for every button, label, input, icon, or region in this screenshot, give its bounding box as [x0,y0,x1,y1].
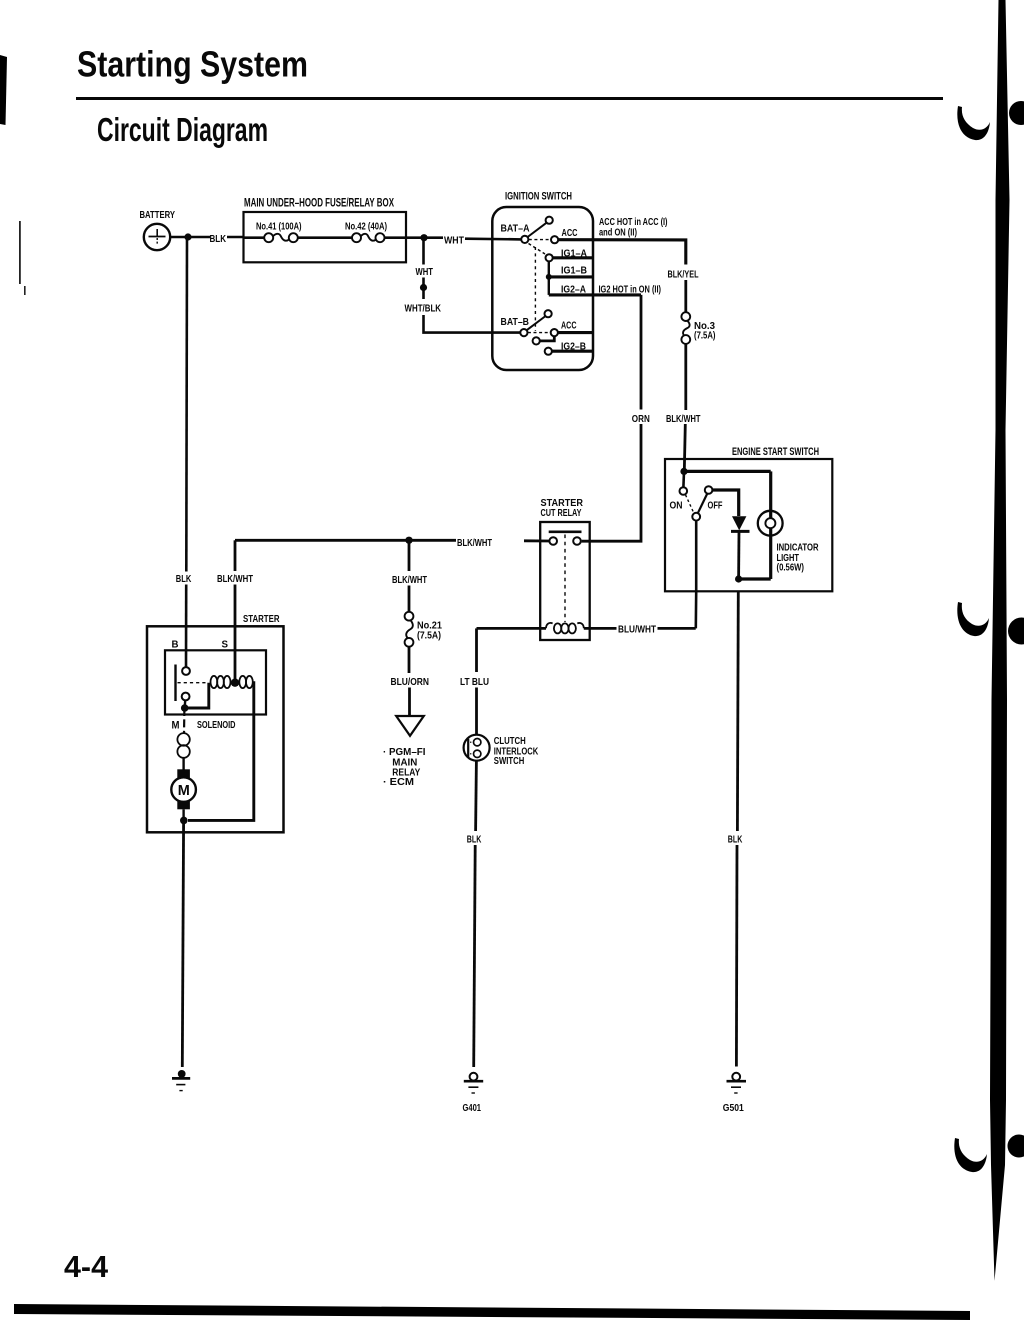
ground battery side [172,1070,190,1091]
wire IG2-A out to ORN corner [549,293,641,296]
svg-text:M: M [178,783,190,799]
wire fuse No.3 down [684,344,687,410]
wire relay coil left to clutch column [477,627,547,630]
engine start switch box [665,459,832,591]
relay contact left [549,537,557,545]
svg-text:G501: G501 [723,1102,744,1114]
wire junction to coil left [185,683,209,708]
fuse No.21 (7.5A) [405,612,414,647]
svg-text:No.41 (100A): No.41 (100A) [256,222,302,233]
wire lamp top feed [769,471,772,518]
ground G501 [727,1073,747,1093]
svg-text:Circuit Diagram: Circuit Diagram [97,111,268,148]
svg-text:B: B [172,638,179,650]
wire ACC out to BLK/YEL corner [558,240,686,265]
node battery junction [184,233,191,240]
label PGM-FI MAIN RELAY ECM [383,746,426,788]
wire IG1 vertical [548,261,550,295]
contact below BAT-B [533,337,540,344]
right edge hole circle 1 [1009,101,1024,125]
svg-text:BLU/ORN: BLU/ORN [391,676,430,688]
relay contact plate bar [549,530,582,533]
wire pivot down out of box [694,521,697,629]
svg-text:LT BLU: LT BLU [460,676,489,688]
node WHT/BLK splice [420,284,427,291]
battery BLK vertical wire lower to starter B [185,585,188,668]
wire BLK/WHT horizontal to starter cut relay [235,539,456,542]
svg-text:IG2 HOT in ON (II): IG2 HOT in ON (II) [599,283,662,295]
wire BLU/WHT to engine switch column [658,627,696,630]
wire junction to ON contact [682,471,685,487]
contact arm tip A [546,217,553,224]
wire BLK/WHT No.21 column upper [408,540,411,571]
svg-text:BLK/WHT: BLK/WHT [457,537,492,549]
svg-text:BLK: BLK [210,233,227,245]
fuse No.3 (7.5A) [681,312,690,344]
wire fuse No.21 down [408,647,411,673]
svg-text:BLK/WHT: BLK/WHT [392,574,427,586]
wire IG1-B stub [549,275,593,278]
right edge hole circle 3 [1008,1135,1024,1158]
wire OFF to diode [712,490,738,516]
solenoid hold-in coil [239,676,253,688]
svg-text:WHT/BLK: WHT/BLK [405,303,442,315]
wire M contact to junction [183,700,186,707]
wire BLU/ORN to arrow [408,688,411,716]
pen curl mark 1 [957,106,990,140]
svg-text:4-4: 4-4 [64,1249,109,1284]
wire WHT vertical lower [422,278,425,300]
svg-text:· ECM: · ECM [383,776,414,788]
svg-text:BAT–A: BAT–A [501,223,530,235]
node IG1-B junction [546,274,552,280]
svg-text:ACC: ACC [562,227,578,239]
solenoid contact B [182,667,190,675]
solenoid pull-in coil [211,676,231,688]
svg-text:BLK: BLK [728,833,743,845]
wire WHT to ignition BAT-A [465,237,522,240]
svg-text:BLU/WHT: BLU/WHT [618,624,656,636]
relay dashed plunger line [564,535,566,623]
dashed link BAT-B to ACC-B [528,332,550,334]
wire BLK down to G501 upper [736,591,740,831]
dashed mechanical link vertical [534,247,536,331]
contact ACC-B [551,329,558,336]
svg-text:BLK: BLK [176,573,192,585]
svg-text:BATTERY: BATTERY [140,209,176,221]
wire brush to bottom junction [182,809,184,820]
wire BLK/WHT into engine start switch [684,424,685,471]
node junction at BLK/WHT entry [680,468,687,475]
contact BAT-A [521,236,528,243]
scan artifact line left [19,221,21,284]
wire WHT vertical upper [422,238,425,265]
svg-text:BLK/YEL: BLK/YEL [668,268,699,280]
svg-text:STARTER: STARTER [243,613,280,625]
motor brush bottom [177,801,190,810]
svg-text:ACC: ACC [561,320,577,332]
battery [144,224,170,250]
pen curl mark 3 [954,1138,987,1172]
wire junction to indicator light branch [684,470,771,473]
contact arm tip B [545,310,552,317]
label INDICATOR LIGHT (0.56W) [777,541,819,573]
svg-text:ENGINE START SWITCH: ENGINE START SWITCH [732,446,819,458]
wire IG1-A stub [553,256,593,259]
svg-text:No.42 (40A): No.42 (40A) [345,222,387,233]
title rule [76,97,943,100]
wire ORN lower to relay [582,424,641,541]
label CLUTCH INTERLOCK SWITCH [494,735,539,767]
wire coil to brush [182,758,184,770]
dashed link BAT-A to ACC [529,239,551,241]
left edge black tab [0,55,7,125]
svg-text:S: S [222,638,229,650]
solenoid contact M [182,693,190,701]
wire relay coil right to BLU/WHT [584,627,617,630]
svg-text:G401: G401 [463,1102,482,1114]
wire coil return right side down [188,683,254,821]
fuse No.41 (100A) [264,233,298,242]
pen curl mark 2 [957,602,989,636]
svg-text:and ON (II): and ON (II) [599,226,637,238]
switch pivot contact [692,513,700,521]
contact IG2-B [545,348,552,355]
svg-text:Starting System: Starting System [77,44,308,85]
motor armature coil [177,733,189,758]
diode cathode bar [731,530,750,533]
ignition switch box [492,207,593,370]
svg-text:BLK: BLK [467,833,482,845]
relay coil [546,623,584,633]
starter box [147,626,284,832]
wire diode to bottom junction [737,531,740,579]
svg-text:IG1–B: IG1–B [561,265,587,277]
svg-text:(0.56W): (0.56W) [777,561,805,573]
wire ORN upper [640,295,643,410]
node motor bottom junction [180,817,188,825]
svg-text:OFF: OFF [708,499,723,511]
switch arm BAT-B [527,316,546,330]
contact BAT-B [520,329,527,336]
starter cut relay box [540,522,590,640]
wire inside fuse box left [244,236,265,239]
wire clutch column top from relay coil [475,628,478,672]
solenoid dashed actuator line [178,682,209,684]
relay contact right [573,537,581,545]
switch arm BAT-A [528,223,547,237]
wire BLK/WHT S-column lower [234,585,237,683]
svg-text:SOLENOID: SOLENOID [197,719,236,731]
svg-text:CUT RELAY: CUT RELAY [541,507,582,519]
wire clutch switch down [474,761,478,831]
main under-hood fuse/relay box [244,212,407,262]
wire lamp bottom [769,528,772,579]
wire between fuses [298,236,352,239]
wire fuse box to WHT junction [385,236,444,239]
contact ON [680,487,688,495]
motor M1 [171,777,196,802]
svg-text:BLK/WHT: BLK/WHT [666,413,701,425]
svg-text:(7.5A): (7.5A) [417,631,441,642]
svg-text:BLK/WHT: BLK/WHT [217,573,253,585]
node BLK/WHT junction at No.21 [405,537,412,544]
contact IG1-A [546,254,553,261]
arrow to PGM-FI main relay / ECM [396,716,424,736]
wire BLK/WHT into relay left contact [524,539,549,542]
switch arm to OFF [698,494,708,514]
svg-text:IGNITION SWITCH: IGNITION SWITCH [505,191,572,203]
wire junction to lamp bottom [739,577,771,580]
diode D1 [732,516,746,530]
wire BLK down to G501 lower [735,845,738,1067]
motor brush top [177,769,190,778]
ground G401 [464,1073,483,1093]
svg-text:ORN: ORN [632,413,650,425]
node S junction on coil [231,679,239,687]
wire to fuse No.21 [408,586,411,612]
solenoid plunger bar [174,665,176,702]
indicator light bulb [758,511,783,536]
svg-text:WHT: WHT [444,235,464,247]
dashed mechanical link diagonal [529,244,546,255]
battery BLK vertical wire upper [185,237,188,572]
dashed link pivot to ON [686,495,694,513]
right edge black pen line [990,0,1010,1281]
wire BLK/WHT S-column upper [234,540,237,571]
bottom black bar [14,1304,970,1320]
fuse No.42 (40A) [352,233,385,242]
wire starter to ground [182,820,183,1067]
node M junction [181,704,189,712]
clutch interlock switch [464,735,490,761]
svg-text:MAIN UNDER–HOOD FUSE/RELAY BOX: MAIN UNDER–HOOD FUSE/RELAY BOX [244,198,394,210]
wire M junction down to armature coil [183,708,186,734]
svg-text:WHT: WHT [416,266,434,278]
wire BLK/YEL to fuse No.3 [684,280,687,312]
wire WHT/BLK to BAT-B [424,315,521,333]
svg-text:SWITCH: SWITCH [494,755,525,767]
svg-text:BAT–B: BAT–B [501,316,530,328]
right edge hole circle 2 [1008,618,1024,645]
node WHT junction [420,234,427,241]
wire IG2-B stub [552,350,593,353]
wire BLK to fuse box [227,236,244,239]
solenoid box [165,650,266,714]
contact OFF [705,486,713,494]
wire ACC-B stub [558,331,593,334]
wire battery to junction [170,236,210,239]
svg-text:M: M [172,720,180,732]
node diode/lamp junction [735,575,742,582]
wire L-link to ACC-B [540,337,555,341]
contact ACC-A [551,236,558,243]
svg-text:ON: ON [670,499,683,511]
wire BLK to G401 [474,845,476,1067]
svg-text:(7.5A): (7.5A) [694,331,716,342]
wire LT BLU to clutch switch [475,688,478,735]
